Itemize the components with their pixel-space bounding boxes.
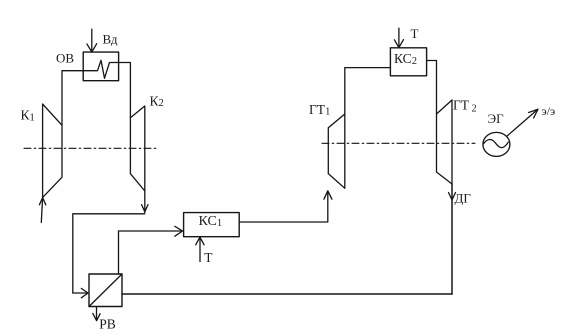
- wire: KC1 to GT1 inlet: [239, 192, 328, 223]
- arrow down into OB (Vd): [87, 44, 97, 52]
- compressor K2: [130, 106, 144, 191]
- wire: EG electrical output arrow: [507, 110, 537, 136]
- turbine GT1: [328, 114, 345, 188]
- wire: into RV left side: [73, 292, 88, 294]
- wire: water Vd inlet: [91, 29, 93, 51]
- turbine GT2: [437, 100, 453, 184]
- svg-text:ДГ: ДГ: [455, 191, 472, 206]
- wire: exhaust gas back to RV right side: [122, 293, 452, 295]
- arrow down into KC2: [394, 40, 403, 48]
- svg-text:э/э: э/э: [542, 104, 556, 118]
- shaft centerline left (K1-K2): [24, 147, 157, 149]
- combustion chamber KC2 box: [390, 48, 426, 76]
- svg-text:КС1: КС1: [199, 214, 223, 229]
- regenerator RV box: [89, 274, 122, 307]
- svg-text:К2: К2: [150, 93, 164, 109]
- air cooler OB box: [83, 52, 118, 81]
- wire: RV top to KC1: [119, 231, 182, 274]
- arrowhead to e/e: [529, 109, 538, 118]
- svg-text:КС2: КС2: [394, 51, 417, 67]
- arrow right into RV: [81, 288, 88, 297]
- wire: RV bottom exhaust: [96, 307, 98, 320]
- arrow up into GT1: [324, 191, 332, 199]
- svg-text:ГТ1: ГТ1: [309, 102, 330, 118]
- arrow up into K1 inlet: [39, 198, 45, 205]
- arrow down at K2 outlet: [142, 205, 148, 212]
- svg-text:ЭГ: ЭГ: [488, 111, 505, 126]
- svg-text:Т: Т: [411, 26, 419, 41]
- RV diagonal: [89, 274, 122, 307]
- combustion chamber KC1 box: [184, 213, 240, 237]
- arrow down out of RV: [93, 313, 100, 320]
- EG sine symbol: [483, 140, 508, 148]
- wire: GT2 exhaust down (DG): [451, 184, 453, 294]
- wire: K1 outlet up to OB cooler: [62, 71, 83, 126]
- svg-text:К1: К1: [21, 108, 35, 124]
- svg-text:ОВ: ОВ: [56, 51, 74, 66]
- wire: K2 outlet down: [144, 191, 146, 213]
- OB heat-exchanger zigzag: [83, 60, 118, 78]
- wire: air inlet to K1: [41, 198, 42, 223]
- svg-text:РВ: РВ: [99, 317, 116, 332]
- wire: fuel T into KC2 top: [398, 28, 400, 47]
- arrow up into KC1: [196, 237, 204, 245]
- shaft centerline right (GT1-GT2-EG): [322, 142, 475, 144]
- compressor K1: [43, 104, 62, 198]
- wire: fuel T into KC1 bottom: [199, 238, 201, 262]
- wire: OB outlet to K2: [119, 63, 131, 118]
- arrow right into KC1: [175, 226, 183, 236]
- generator EG circle: [483, 132, 510, 156]
- wire: K2 outlet across and down to RV: [73, 214, 145, 293]
- svg-text:ГТ2: ГТ2: [453, 98, 477, 115]
- svg-text:Вд: Вд: [103, 32, 118, 47]
- arrow down on DG wire: [449, 193, 456, 201]
- wire: GT1 outlet up to KC2: [345, 68, 391, 114]
- svg-text:Т: Т: [204, 250, 213, 265]
- wire: KC2 to GT2 inlet: [427, 61, 437, 115]
